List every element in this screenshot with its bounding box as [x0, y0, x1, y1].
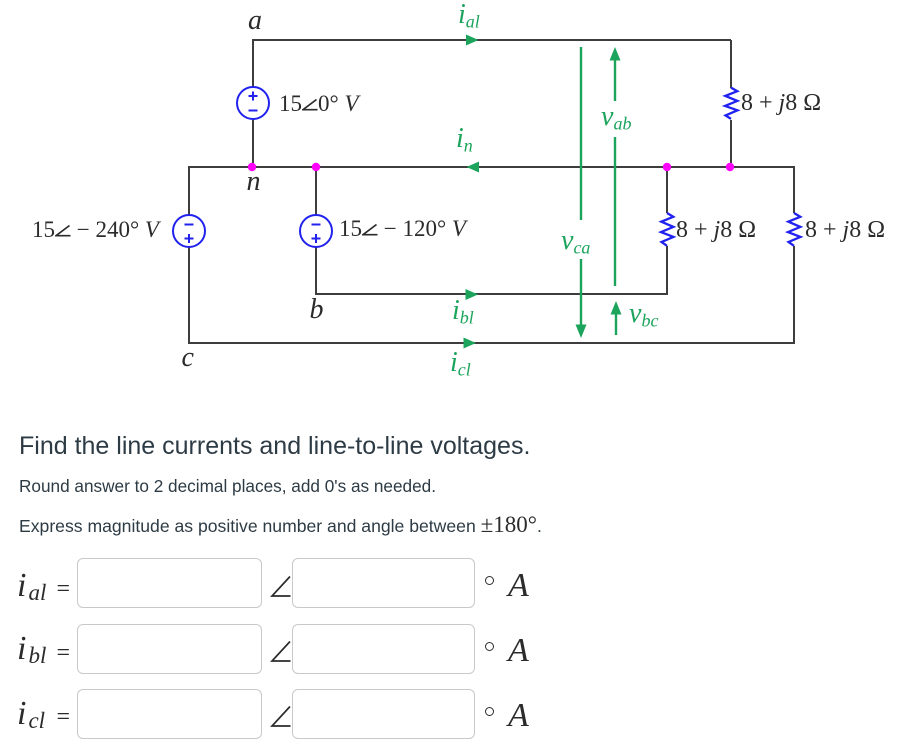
wire: middle neutral rail — [189, 166, 794, 168]
answer row i_bl unit A — [508, 634, 529, 668]
voltage label v_bc — [629, 300, 658, 328]
current label i_bl — [452, 297, 474, 325]
wire: R3 top lead — [793, 166, 795, 213]
current arrow i_bl — [466, 289, 479, 300]
question heading — [19, 434, 530, 459]
wire: R2 bottom lead — [666, 246, 668, 295]
value label 15 angle -120 V — [339, 217, 466, 240]
answer row i_cl angle input — [292, 689, 475, 739]
answer row i_bl degree mark — [485, 642, 494, 651]
voltage label v_ca — [561, 227, 590, 255]
wire: R3 bottom lead — [793, 246, 795, 344]
answer row i_al unit A — [508, 569, 529, 603]
value label 8+j8 ohm R3 — [805, 218, 885, 242]
voltage arrow v_ca (down) — [580, 47, 582, 326]
wire: top rail from node a to R1 — [253, 39, 731, 41]
circuit schematic — [0, 0, 922, 400]
voltage label v_ab — [601, 103, 631, 131]
current arrow i_cl — [464, 338, 477, 349]
answer row i_al angle symbol — [270, 575, 292, 598]
answer row i_al angle input — [292, 558, 475, 608]
answer row i_bl angle input — [292, 624, 475, 674]
answer row i_cl degree mark — [485, 707, 494, 716]
value label 8+j8 ohm R2 — [676, 218, 756, 242]
wire: source Va bottom to node n — [252, 119, 254, 167]
answer row i_bl magnitude input — [77, 624, 262, 674]
answer row i_cl magnitude input — [77, 689, 262, 739]
current label i_n — [456, 125, 473, 153]
wire: R1 bottom lead — [730, 120, 732, 166]
answer row i_al magnitude input — [77, 558, 262, 608]
current arrow i_al — [466, 35, 479, 46]
R1 branch junction dot — [726, 163, 734, 171]
answer row i_bl equals — [57, 641, 71, 665]
current label i_cl — [450, 349, 471, 377]
resistor R3 8+j8 ohm — [788, 213, 801, 246]
resistor R1 8+j8 ohm — [725, 88, 738, 119]
answer row i_al degree mark — [485, 576, 494, 585]
wire: left vertical above source Vc — [188, 166, 190, 215]
answer row i_cl equals — [57, 705, 71, 729]
R2 branch junction dot — [663, 163, 671, 171]
node label n — [247, 168, 261, 196]
answer row i_bl angle symbol — [270, 640, 292, 663]
voltage arrow v_bc (up) — [615, 312, 617, 335]
current arrow i_n — [467, 162, 480, 173]
node b branch junction dot — [312, 163, 320, 171]
current label i_al — [458, 1, 480, 29]
answer row i_cl angle symbol — [270, 705, 292, 728]
wire: R1 top lead — [730, 40, 732, 88]
value label 15 angle 0 V — [279, 92, 359, 115]
answer row i_bl label — [17, 632, 46, 666]
voltage arrow v_ab (up) — [614, 59, 616, 286]
node n junction dot — [248, 163, 256, 171]
instruction line 1 — [19, 478, 436, 495]
wire: R2 top lead — [666, 167, 668, 213]
wire: left vertical below source Vc to node c — [188, 247, 190, 344]
node label c — [182, 344, 194, 372]
node label b — [310, 296, 324, 324]
voltage source Vc 15 angle -240 V — [173, 215, 205, 247]
resistor R2 8+j8 ohm — [661, 213, 674, 246]
voltage source Va 15 angle 0 V — [237, 87, 269, 119]
answer row i_cl unit A — [508, 699, 529, 733]
wire: bottom rail c — [189, 342, 794, 344]
wire: b rail — [316, 293, 667, 295]
value label 8+j8 ohm R1 — [741, 91, 821, 115]
instruction line 2 — [19, 513, 542, 536]
value label 15 angle -240 V — [32, 218, 159, 241]
wire: node a drop to source Va top — [252, 39, 254, 87]
voltage source Vb 15 angle -120 V — [300, 215, 332, 247]
answer row i_al label — [17, 569, 46, 603]
node label a — [248, 7, 262, 35]
wire: b branch above source Vb — [315, 166, 317, 215]
wire: source Vb bottom to node b — [315, 247, 317, 295]
answer row i_cl label — [17, 697, 45, 731]
answer row i_al equals — [57, 577, 71, 601]
